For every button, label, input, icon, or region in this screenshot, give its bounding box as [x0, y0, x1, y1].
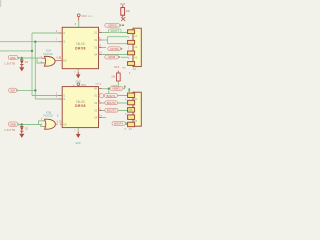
svg-text:R16: R16	[115, 66, 120, 69]
wire net IN1 vertical bus left	[31, 33, 33, 96]
wire IC2 BOUT1 to header2 pin 1	[102, 95, 129, 97]
pin header JP1 body	[133, 28, 141, 66]
junction nSLEEP2 on bus	[34, 89, 36, 91]
svg-text:VREF2: VREF2	[112, 87, 121, 91]
IC1 pin stubs right	[99, 33, 102, 55]
wire IC1 bottom pin to ground	[77, 69, 79, 72]
svg-text:IC3B: IC3B	[46, 112, 52, 114]
svg-text:ENB: ENB	[10, 123, 16, 127]
wire IC2 VREF to resistor R3	[102, 88, 125, 90]
svg-text:VCC: VCC	[88, 16, 93, 18]
pin header JP2 pin box 5	[128, 122, 135, 127]
pin header JP1 pin box 2	[128, 40, 135, 44]
svg-text:74LVC1G: 74LVC1G	[43, 54, 53, 56]
wire cut at top-left canvas edge	[0, 0, 2, 7]
gate U3B output wire to IC2	[55, 123, 62, 125]
wire net IN1 to IC2 pin	[32, 95, 59, 97]
wire jog to gate U3B input 2	[39, 125, 43, 127]
IC1 pin stubs left	[59, 33, 63, 42]
svg-text:EN: EN	[63, 124, 67, 126]
wire IC1 OUT2 stub	[102, 39, 108, 41]
ground symbol below IC1	[76, 72, 81, 83]
arrow marker green up near jog	[123, 85, 126, 88]
wire net nSLEEP2 from label to bus	[19, 89, 36, 91]
svg-text:6 10: 6 10	[57, 122, 62, 124]
wire jog to gate U3B input 1	[39, 121, 43, 125]
wire vertical jog OUT2	[107, 37, 109, 44]
svg-text:VCC: VCC	[81, 84, 86, 87]
pin header JP2 pin box 2	[128, 100, 135, 105]
junction at resistor R3 bottom	[108, 88, 110, 90]
net label flag U2RXD top right	[105, 23, 124, 27]
net label flag GND small	[99, 94, 103, 98]
IC2 pin stubs right	[99, 89, 102, 118]
wire IC1 OUT4 to header pin 3	[102, 54, 129, 56]
svg-text:ENA: ENA	[10, 56, 16, 60]
ground symbol below D2	[19, 134, 24, 138]
junction on bus at branch	[31, 50, 33, 52]
svg-text:BOUT2: BOUT2	[107, 101, 116, 105]
wire VCC to IC1 top pin	[78, 21, 80, 28]
wire net ENA from label to gate U3A input	[19, 57, 43, 59]
wire IC1 OUT1 to header pin 1	[102, 32, 129, 34]
svg-text:DRV8: DRV8	[75, 104, 86, 108]
resistor R1 top right	[121, 5, 125, 18]
svg-text:IC3A: IC3A	[46, 50, 52, 53]
svg-text:EN: EN	[63, 60, 67, 62]
solder jumper SJ1	[121, 17, 125, 21]
wire net IN2 horizontal from left edge to IC1	[0, 41, 59, 43]
wire jog to gate U3A input 2	[37, 58, 43, 63]
VCC symbol above IC2	[77, 83, 86, 87]
net label flag ENB	[8, 122, 20, 127]
pin header JP2 pin box 1	[128, 93, 135, 98]
svg-text:VR: VR	[94, 89, 98, 91]
svg-text:VM: VM	[122, 68, 125, 70]
svg-text:BOUT4: BOUT4	[114, 122, 123, 126]
wire IC1 OUT3 stub	[102, 47, 107, 49]
gate U3A output wire to IC1	[55, 60, 62, 62]
net label flag U2TXD right	[108, 47, 123, 51]
wire resistor R3 bottom lead	[117, 81, 119, 89]
diode D2	[20, 126, 23, 133]
wire branch from left edge joining bus	[0, 50, 32, 52]
svg-text:U2RXD: U2RXD	[108, 24, 117, 28]
wire IC2 BOUT2 to header2 pin 2	[102, 102, 129, 104]
net label flag BOUT3	[105, 108, 118, 112]
svg-text:VCC: VCC	[82, 15, 87, 18]
arrow marker above header2	[128, 88, 130, 92]
net label flag nSLP	[9, 88, 19, 92]
op-amp gate U3A OR gate	[44, 56, 55, 66]
svg-text:VM: VM	[95, 83, 98, 85]
svg-text:DRV8: DRV8	[75, 47, 86, 51]
wire net IN2 to IC2 pin	[35, 98, 58, 100]
ground symbol below IC2	[75, 132, 80, 145]
IC2 pin stubs left	[59, 96, 63, 100]
pin header JP1 pin box 3	[128, 51, 135, 55]
svg-text:U2TXD: U2TXD	[110, 47, 119, 51]
resistor R3 mid right	[117, 71, 121, 81]
gate U3A input stubs	[42, 59, 45, 63]
pin header JP2 pin box 3	[128, 108, 135, 113]
wire VCC to IC2 top pin	[77, 85, 79, 86]
net label flag BOUT1	[104, 94, 117, 98]
svg-text:SLP: SLP	[10, 89, 15, 93]
svg-text:BOUT1: BOUT1	[107, 94, 116, 98]
svg-text:1.5kTTB: 1.5kTTB	[4, 129, 15, 132]
wire IC2 bottom pin to ground	[77, 128, 79, 132]
svg-text:U2VM: U2VM	[108, 55, 115, 59]
svg-text:AOUT1: AOUT1	[111, 30, 120, 33]
pin header JP1 pin box 1	[128, 30, 135, 34]
wire net ENB from label to gate U3B	[19, 124, 39, 126]
wire label to header2 pin 4	[126, 123, 129, 125]
net label flag ENA	[8, 55, 20, 60]
VCC symbol above IC1	[77, 14, 87, 21]
wire vertical jog to BOUT1	[108, 89, 110, 96]
svg-text:GND: GND	[75, 143, 80, 145]
pin header JP2 pin box 4	[128, 115, 135, 120]
diode D1	[20, 60, 23, 67]
green net label on wire OUT1	[108, 29, 121, 33]
svg-text:74LVC1G: 74LVC1G	[43, 116, 53, 118]
svg-text:BOUT3: BOUT3	[107, 109, 116, 113]
net label flag BOUT4	[112, 121, 128, 125]
ground symbol below D1	[19, 67, 24, 71]
svg-text:R15: R15	[120, 3, 125, 6]
wire upper branch OUT2	[108, 36, 128, 38]
junction ENB at diode tap	[21, 123, 23, 125]
net label flag BOUT2	[105, 101, 118, 105]
wire IC2 BOUT3 to header2 pin 3	[102, 110, 129, 112]
gate U3B OR gate	[45, 119, 56, 129]
pin header JP1 pin box 4	[128, 62, 135, 66]
net label flag VM right	[105, 55, 121, 59]
IC2 body DRV8	[62, 87, 98, 128]
wire net IN1 horizontal to IC1 pin	[32, 32, 59, 34]
gate U3B input stubs	[43, 121, 46, 127]
wire IC2 BOUT4 stub	[102, 117, 107, 119]
pin header JP2 body	[133, 92, 141, 126]
wire net IN2 vertical bus	[34, 42, 36, 99]
net label flag VREF2 on wire	[110, 87, 123, 91]
wire from label VM to header	[121, 56, 128, 58]
junction ENA at diode tap	[21, 57, 23, 59]
junction net IN2 tap	[34, 41, 36, 43]
wire lower branch OUT2 to header pin 2	[108, 43, 129, 45]
IC1 body DRV8	[62, 27, 98, 68]
svg-text:1.5kTTB: 1.5kTTB	[4, 62, 15, 65]
junction BOUT1	[108, 94, 110, 96]
